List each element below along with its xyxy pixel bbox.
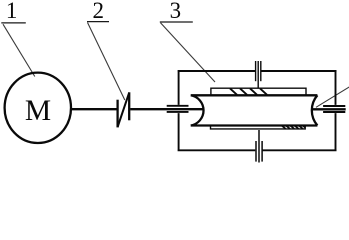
bearing on wheel shaft (bottom wall): right bar <box>261 141 263 162</box>
bearing on wheel shaft (top wall): left bar <box>255 61 257 81</box>
leader line 2 to coupling <box>88 23 125 101</box>
bearing on wheel shaft (bottom wall): left bar <box>255 141 257 162</box>
svg-text:2: 2 <box>92 0 104 23</box>
bearing on input shaft (left wall): upper bar <box>167 105 189 107</box>
svg-text:M: M <box>25 95 51 127</box>
coupling 2: diagonal link <box>118 93 130 127</box>
worm wheel shaft lower stub <box>258 130 260 163</box>
coupling 2: left half flange <box>116 100 118 128</box>
worm wheel upper rim (section) <box>211 88 306 95</box>
bearing on output shaft (right wall): lower bar <box>323 111 345 113</box>
worm wheel shaft upper stub <box>257 61 259 88</box>
bearing on output shaft (right wall): upper bar <box>323 105 345 107</box>
label 1 underline <box>1 22 26 24</box>
worm wheel lower rim (section) <box>211 126 306 129</box>
leader line 3 to gearbox housing <box>161 23 216 82</box>
worm (spool shaped body) <box>191 95 318 125</box>
worm wheel upper rim hatch <box>230 88 267 94</box>
coupling 2: right half flange <box>128 92 130 120</box>
label 2 underline <box>87 21 109 23</box>
leader line 4 (label cut off at right edge) to right bearing <box>316 87 349 108</box>
motor M circle <box>5 73 71 143</box>
leader line 1 to motor <box>3 24 35 76</box>
svg-text:3: 3 <box>170 0 182 23</box>
svg-text:1: 1 <box>6 0 18 23</box>
wire shaft: worm output through right wall <box>312 108 346 110</box>
gearbox housing 3 (rectangle, interrupted at bearings) <box>178 70 337 151</box>
bearing on wheel shaft (top wall): right bar <box>260 61 262 81</box>
label 3 underline <box>160 21 193 23</box>
wire shaft: motor to coupling <box>71 108 117 110</box>
wire shaft: coupling to worm <box>130 108 203 110</box>
bearing on input shaft (left wall): lower bar <box>167 111 189 113</box>
worm wheel lower rim hatch <box>282 126 305 129</box>
